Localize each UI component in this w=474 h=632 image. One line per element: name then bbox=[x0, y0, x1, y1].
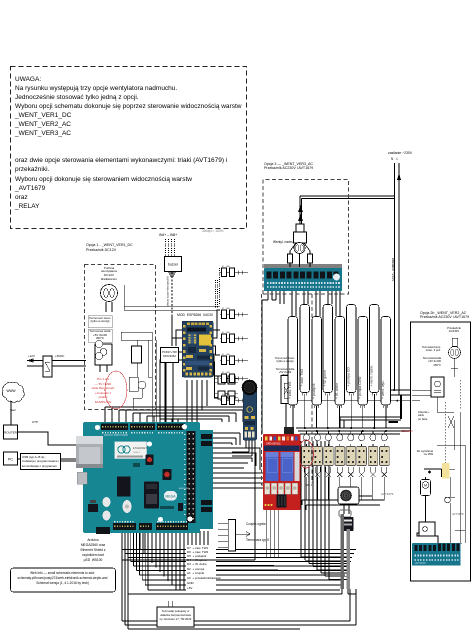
label termometr zewn bbox=[89, 317, 111, 324]
wire router UTP to board bbox=[17, 432, 77, 445]
signal flag labels (tall rects) bbox=[288, 317, 298, 406]
svg-text:+ pompa CO: + pompa CO bbox=[347, 367, 351, 387]
wires to thermo bars bbox=[128, 589, 356, 594]
wire cloud to router bbox=[10, 400, 12, 425]
fan motor VER3 bbox=[296, 224, 304, 232]
label mod esp bbox=[177, 314, 213, 318]
optocouplers small group bbox=[218, 376, 225, 384]
red ellipse highlight opto1 bbox=[299, 440, 314, 468]
svg-text:AVT1679: AVT1679 bbox=[415, 561, 426, 565]
AVT1679 PCB (opcja2b) bbox=[412, 543, 461, 566]
wire avt board top bus bbox=[264, 265, 342, 267]
wires ESP left bbox=[160, 330, 182, 422]
wire PC usb to board bbox=[17, 459, 83, 461]
svg-text:R LED: R LED bbox=[222, 354, 230, 356]
buzzer box bbox=[165, 257, 182, 272]
label turbina bbox=[92, 267, 126, 282]
label opcja1 bbox=[86, 243, 133, 252]
wires inside opcja2b bbox=[412, 358, 465, 546]
labels flags top bbox=[275, 357, 295, 363]
svg-text:MEGA: MEGA bbox=[166, 495, 177, 499]
label opcja2b bbox=[420, 311, 469, 320]
wires avt1679 board to flags bbox=[268, 291, 340, 316]
UWAGA note text bbox=[15, 75, 241, 211]
wires bus to optos bbox=[307, 431, 385, 447]
termostat box text bbox=[159, 609, 192, 622]
resistor R ver3 a bbox=[288, 254, 293, 263]
red scribble ellipse bbox=[105, 371, 127, 409]
wires fan bus to led pairs bbox=[124, 285, 220, 310]
pin label rows bbox=[187, 547, 208, 550]
wires arduino right side bbox=[196, 433, 276, 488]
LED resistor pairs column bbox=[220, 272, 248, 274]
svg-text:SHIELD: SHIELD bbox=[133, 452, 141, 454]
AVT1679 triac PCB (opcja3) bbox=[264, 268, 342, 291]
wires ESP right to led column bbox=[213, 310, 220, 398]
wire fan to resistors bbox=[290, 243, 310, 267]
svg-text:+ went. nadm.: + went. nadm. bbox=[370, 365, 374, 386]
PC box bbox=[4, 452, 18, 465]
small parts right of opcja1 bbox=[132, 346, 142, 363]
svg-text:ETHERNET: ETHERNET bbox=[133, 446, 147, 450]
outer bottom lines bbox=[122, 533, 356, 629]
nested wire bus bottom bbox=[122, 533, 186, 590]
wires ESP to arduino bbox=[187, 380, 207, 422]
Opcja1 dashed box bbox=[85, 265, 156, 410]
sensor TS box bbox=[281, 376, 297, 404]
fan VER1 DC bbox=[101, 285, 118, 302]
label wentyl nadm bbox=[273, 241, 293, 245]
sensor box opcja1 bbox=[95, 344, 112, 365]
small circle component bbox=[445, 497, 451, 503]
termopara connector bbox=[228, 519, 235, 551]
svg-text:PC: PC bbox=[8, 458, 13, 462]
svg-text:M: M bbox=[424, 484, 427, 488]
svg-text:ARDUINO: ARDUINO bbox=[179, 487, 189, 490]
Opcja2b white box bbox=[411, 322, 471, 581]
svg-text:MOC3052: MOC3052 bbox=[163, 354, 176, 358]
label siec utp bbox=[10, 409, 16, 412]
wire speaker bbox=[344, 490, 372, 514]
wires mains into opcja2b bbox=[296, 390, 412, 428]
relay module PCB bbox=[263, 434, 301, 510]
label arduino caption bbox=[71, 538, 115, 563]
url note box bbox=[11, 568, 116, 592]
label termometr kotla bbox=[89, 330, 111, 341]
svg-text:R LED: R LED bbox=[222, 332, 230, 334]
small box bottom2b bbox=[419, 522, 435, 536]
Arduino Mega + Ethernet shield bbox=[200, 430, 213, 529]
svg-text:R LED: R LED bbox=[222, 266, 230, 268]
svg-text:SRD-05VDC: SRD-05VDC bbox=[266, 442, 281, 446]
svg-text:ROUTER: ROUTER bbox=[4, 431, 18, 435]
yellow highlight bbox=[442, 463, 450, 479]
svg-text:+ W. dolne: + W. dolne bbox=[335, 383, 339, 399]
USB-B jack bbox=[77, 472, 87, 484]
router box bbox=[4, 425, 18, 439]
label +12V bbox=[28, 355, 35, 358]
wires IN4-IN8 dotted bbox=[166, 239, 175, 256]
svg-text:R LED: R LED bbox=[222, 308, 230, 310]
arduino pin name column bbox=[186, 545, 216, 595]
svg-text:DIGITAL PWM COMM: DIGITAL PWM COMM bbox=[104, 434, 128, 437]
label IN4-IN8 bbox=[159, 234, 177, 238]
wires mic module down bbox=[232, 440, 252, 456]
bus above optotriacs bbox=[296, 428, 444, 434]
svg-text:+ pompa CWU: + pompa CWU bbox=[358, 376, 362, 399]
svg-text:+ zaw. TW2: + zaw. TW2 bbox=[300, 369, 304, 387]
wire mains L N vertical bbox=[395, 163, 400, 395]
svg-text:+ W. gorne: + W. gorne bbox=[323, 370, 327, 387]
transistors opcja1 bbox=[95, 340, 102, 347]
svg-text:R LED: R LED bbox=[222, 394, 230, 396]
fan VER2 AC bbox=[452, 338, 458, 346]
label usb pc bbox=[20, 453, 61, 470]
speaker syrena bbox=[338, 487, 359, 504]
optotriac row MOC bbox=[304, 434, 310, 441]
UWAGA note dashed box bbox=[11, 67, 247, 229]
cloud WWW internet bbox=[2, 382, 24, 402]
label zasilanie 230 bbox=[388, 152, 412, 156]
label 230VAC red bbox=[400, 430, 413, 433]
wire bundle mid-bottom bbox=[301, 441, 350, 579]
wire buzzer down bbox=[171, 273, 173, 317]
Opcja3 dashed box bbox=[262, 180, 349, 486]
label czujnik bbox=[246, 523, 266, 527]
wires relay to bottom bbox=[216, 510, 278, 569]
component box opcja2b bbox=[431, 377, 444, 397]
microphone sensor module bbox=[243, 386, 257, 440]
svg-text:+ zaw. TW1: + zaw. TW1 bbox=[288, 381, 292, 399]
motor M circle bbox=[421, 480, 431, 496]
RJ45 ethernet jack bbox=[76, 436, 103, 468]
wire bus above arduino bbox=[105, 407, 250, 422]
wires flags to opto bus bbox=[293, 394, 386, 428]
scale note bbox=[202, 230, 223, 234]
arrow on mains wire bbox=[397, 173, 401, 180]
triacs below optos bbox=[304, 467, 387, 500]
labels inside opcja2b bbox=[447, 327, 461, 334]
url box text bbox=[14, 571, 111, 586]
ESP8266 module bbox=[182, 321, 213, 377]
red note text bbox=[88, 377, 118, 405]
thermo probe bars bbox=[339, 510, 351, 517]
label opcja3 bbox=[264, 162, 313, 172]
buzzer wire label rotated bbox=[165, 276, 168, 307]
svg-text:buzzer: buzzer bbox=[168, 263, 179, 267]
wires arduino bottom bbox=[140, 531, 184, 590]
termostat note box bbox=[157, 607, 194, 627]
label avt1679 gray mid bbox=[381, 493, 393, 496]
svg-text:+ went. wyc.: + went. wyc. bbox=[381, 380, 385, 399]
svg-text:WWW: WWW bbox=[6, 389, 15, 393]
bus below triacs bbox=[302, 500, 384, 510]
diode D1 box left bbox=[43, 356, 52, 377]
resistor R ver3 b bbox=[308, 254, 313, 263]
thermometer label boxes bbox=[88, 316, 112, 328]
PC817 MOC box bbox=[161, 348, 179, 363]
svg-text:+ podajnik: + podajnik bbox=[312, 383, 316, 399]
wire mains to fan VER3 bbox=[300, 196, 395, 224]
svg-text:R LED: R LED bbox=[222, 372, 230, 374]
label zasilanie rotated bbox=[390, 258, 394, 281]
wire +12V feed left bbox=[27, 359, 86, 366]
